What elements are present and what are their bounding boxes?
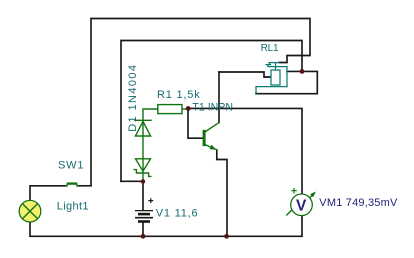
svg-text:VM1 749,35mV: VM1 749,35mV <box>319 197 398 209</box>
svg-text:SW1: SW1 <box>58 159 84 171</box>
svg-text:D1 1N4004: D1 1N4004 <box>127 64 139 132</box>
svg-text:V: V <box>296 197 307 214</box>
svg-text:V1 11,6: V1 11,6 <box>156 208 199 220</box>
svg-text:T1 !NPN: T1 !NPN <box>192 102 233 114</box>
svg-text:R1 1,5k: R1 1,5k <box>157 89 201 101</box>
svg-text:RL1: RL1 <box>261 43 279 54</box>
svg-text:Light1: Light1 <box>57 201 89 213</box>
